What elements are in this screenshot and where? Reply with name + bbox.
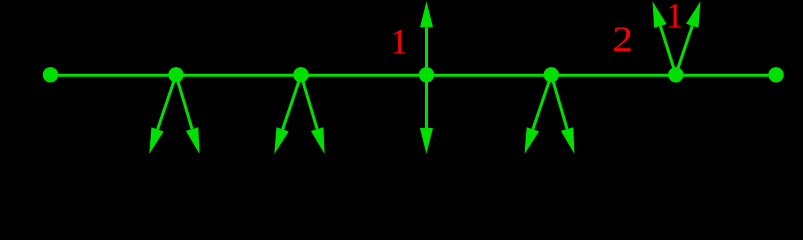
- svg-text:2: 2: [612, 19, 633, 59]
- svg-text:1: 1: [390, 21, 408, 61]
- svg-text:1: 1: [666, 0, 684, 35]
